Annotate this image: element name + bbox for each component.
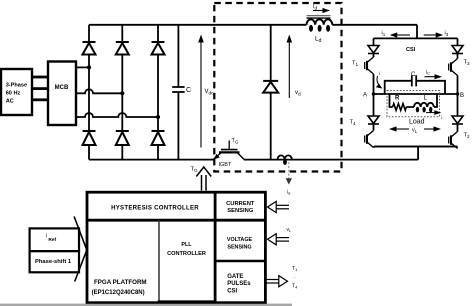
svg-text:id: id xyxy=(287,190,290,196)
id measurement arrow xyxy=(286,162,292,196)
node A current arrow xyxy=(376,71,382,89)
top DC rail xyxy=(89,24,417,26)
svg-text:i: i xyxy=(441,115,442,120)
PLL controller box xyxy=(158,220,215,303)
diode D2 xyxy=(152,131,165,145)
MCB box xyxy=(48,62,76,126)
svg-text:T1: T1 xyxy=(292,266,298,272)
diode D4 xyxy=(83,131,96,145)
capacitor C (DC link) xyxy=(172,25,191,160)
svg-text:i3: i3 xyxy=(445,31,449,37)
svg-text:R: R xyxy=(395,96,400,102)
inductor L (load) xyxy=(414,96,434,113)
voltage sensing input arrow xyxy=(268,227,293,245)
scan shadow bottom xyxy=(0,304,292,306)
svg-text:TG: TG xyxy=(191,167,199,173)
svg-text:Id: Id xyxy=(313,4,318,10)
CSI bottom rail xyxy=(374,147,458,148)
IGBT T2 xyxy=(449,132,470,149)
freewheeling diode xyxy=(263,81,278,93)
bottom DC rail xyxy=(89,159,418,161)
svg-text:TG: TG xyxy=(232,138,239,144)
svg-text:T3: T3 xyxy=(464,60,471,66)
svg-text:i1: i1 xyxy=(382,31,386,37)
load current arrow xyxy=(426,110,442,120)
freewheeling diode leg xyxy=(270,25,272,160)
svg-text:PULSEs: PULSEs xyxy=(227,281,251,287)
svg-text:AC: AC xyxy=(6,98,14,104)
svg-text:T1: T1 xyxy=(352,61,359,67)
svg-text:SENSING: SENSING xyxy=(227,245,251,251)
svg-text:Phase-shift 1: Phase-shift 1 xyxy=(35,259,72,265)
T3 branch diode xyxy=(452,38,463,58)
3-phase source box xyxy=(1,69,32,115)
svg-text:T4: T4 xyxy=(292,284,298,290)
A-B rail xyxy=(374,93,458,95)
svg-text:VOLTAGE: VOLTAGE xyxy=(227,237,253,243)
svg-text:(EP1C12Q240C8N): (EP1C12Q240C8N) xyxy=(92,290,145,296)
node B xyxy=(456,92,464,99)
diode D3 xyxy=(116,42,129,55)
IGBT T1 xyxy=(352,57,374,94)
node A xyxy=(363,92,375,98)
load dotted box xyxy=(387,91,440,117)
CSI top feed wire xyxy=(416,25,418,39)
svg-text:C: C xyxy=(411,72,416,78)
svg-text:vL: vL xyxy=(287,227,293,233)
Vd arrow xyxy=(287,35,302,99)
svg-text:CSI: CSI xyxy=(406,47,416,53)
gate pulses output arrow xyxy=(266,266,298,290)
svg-text:CSI: CSI xyxy=(227,289,237,295)
svg-text:i: i xyxy=(379,71,380,76)
controller outer box (FPGA platform) xyxy=(87,192,265,303)
iC arrow xyxy=(425,70,443,80)
svg-text:.: . xyxy=(294,274,295,280)
svg-text:T2: T2 xyxy=(464,133,471,139)
load branch wires xyxy=(390,94,438,107)
CSI capacitor branch xyxy=(385,72,445,94)
svg-text:3-Phase: 3-Phase xyxy=(6,82,27,88)
T4 branch diode xyxy=(368,94,379,131)
svg-text:Load: Load xyxy=(409,119,425,126)
i1 arrow xyxy=(382,31,411,38)
svg-text:SENSING: SENSING xyxy=(227,208,254,214)
IRef box xyxy=(30,228,79,251)
bridge leg 2 xyxy=(121,25,123,160)
bridge leg 1 xyxy=(88,25,90,160)
svg-text:HYSTERESIS CONTROLLER: HYSTERESIS CONTROLLER xyxy=(111,205,199,212)
svg-text:vL: vL xyxy=(412,128,418,134)
svg-text:iC: iC xyxy=(426,70,430,76)
wire phase B with crossover hump xyxy=(76,89,122,93)
current sensing box xyxy=(226,201,255,214)
feeder lines source to MCB xyxy=(32,77,48,100)
wire phase A xyxy=(76,66,89,68)
svg-text:B: B xyxy=(460,93,464,99)
vL double arrow xyxy=(389,126,441,133)
Vdc arrow xyxy=(198,35,214,148)
svg-text:Ref: Ref xyxy=(48,237,56,243)
i3 arrow xyxy=(424,31,449,38)
TG gate signal arrow (hollow, up) xyxy=(196,167,211,191)
dashed chopper box xyxy=(214,3,341,172)
voltage sensing box xyxy=(215,237,265,261)
bridge leg 3 xyxy=(157,25,159,160)
svg-text:CURRENT: CURRENT xyxy=(226,201,255,207)
diode D6 xyxy=(116,131,129,145)
svg-text:IGBT: IGBT xyxy=(219,162,232,168)
diode D1 xyxy=(83,42,96,55)
node phase A junction xyxy=(87,65,91,69)
T2 branch diode xyxy=(452,94,463,132)
svg-text:FPGA PLATFORM: FPGA PLATFORM xyxy=(94,279,147,286)
T1 branch diode xyxy=(368,38,379,57)
svg-text:PLL: PLL xyxy=(181,242,192,248)
IGBT T3 xyxy=(449,59,470,95)
CSI top rail xyxy=(374,37,458,39)
svg-text:A: A xyxy=(363,93,367,99)
chevron into controller xyxy=(74,217,87,282)
svg-text:CONTROLLER: CONTROLLER xyxy=(167,251,206,257)
gate pulses box xyxy=(227,274,251,295)
Id arrow xyxy=(313,4,330,13)
svg-text:C: C xyxy=(186,87,191,94)
svg-text:GATE: GATE xyxy=(227,274,243,280)
svg-text:I: I xyxy=(46,234,47,240)
current sensing input arrow xyxy=(268,201,290,212)
wire phase C with crossover humps xyxy=(76,113,158,117)
inductor Ld xyxy=(307,16,333,44)
IGBT T4 xyxy=(350,120,374,148)
resistor R xyxy=(393,96,407,111)
node phase B junction xyxy=(120,91,124,95)
sensing column divider xyxy=(214,192,217,303)
phase-shift box xyxy=(30,251,79,272)
CSI bottom drop wire xyxy=(417,147,419,160)
IGBT Td on bottom rail xyxy=(213,138,244,160)
current transformer on rail xyxy=(278,155,292,165)
FPGA platform label xyxy=(92,279,147,296)
hysteresis controller box xyxy=(87,205,265,221)
svg-text:60 Hz: 60 Hz xyxy=(6,90,21,96)
diode D5 xyxy=(152,42,165,55)
svg-text:T4: T4 xyxy=(350,120,357,126)
node phase C junction xyxy=(156,115,160,119)
svg-text:MCB: MCB xyxy=(55,85,69,91)
